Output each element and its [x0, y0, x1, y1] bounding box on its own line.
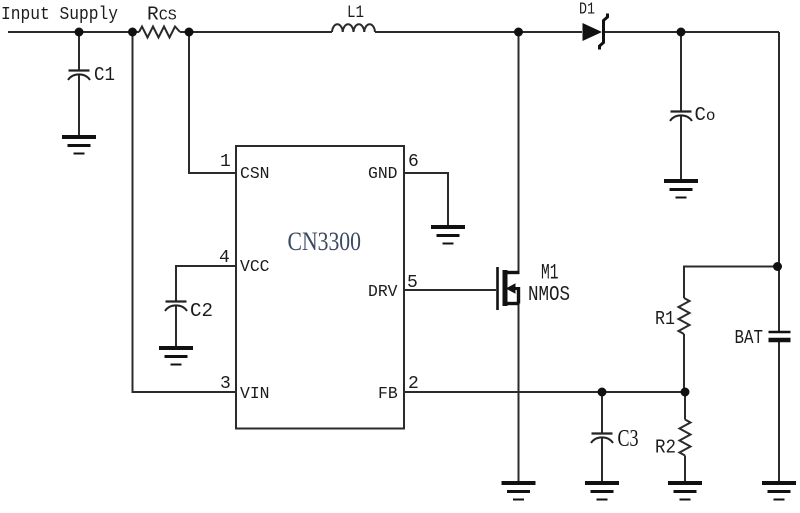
- ground (C1): [62, 137, 96, 154]
- svg-text:BAT: BAT: [735, 327, 764, 349]
- wire top rail between Rcs and L1: [180, 31, 332, 33]
- node Co junction: [677, 28, 686, 37]
- svg-text:NMOS: NMOS: [528, 284, 570, 307]
- svg-text:VCC: VCC: [240, 257, 270, 276]
- svg-text:RCS: RCS: [147, 4, 177, 26]
- node VIN branch junction: [128, 28, 137, 37]
- battery BAT: [769, 332, 791, 340]
- diode D1: [583, 14, 608, 50]
- node M1 drain junction: [514, 28, 523, 37]
- wire C1 branch lower: [78, 75, 80, 137]
- wire VCC to C2: [176, 266, 236, 301]
- wire VIN vertical: [133, 32, 237, 392]
- svg-text:2: 2: [408, 374, 419, 394]
- resistor RCS: [139, 27, 180, 38]
- node R1/BAT junction: [773, 262, 782, 271]
- wire top rail left segment: [8, 31, 139, 33]
- node input/C1 junction: [75, 28, 84, 37]
- svg-text:M1: M1: [541, 261, 559, 286]
- node C3/FB junction: [598, 388, 607, 397]
- svg-text:D1: D1: [579, 0, 595, 19]
- ground (BAT): [762, 483, 796, 500]
- wire top rail between D1 and right edge: [604, 31, 779, 33]
- capacitor C2: [165, 302, 187, 312]
- ground (GND pin 6): [431, 227, 465, 244]
- svg-text:R2: R2: [655, 437, 676, 459]
- resistor R2: [680, 420, 691, 456]
- svg-text:VIN: VIN: [240, 384, 270, 403]
- inductor L1: [332, 24, 375, 32]
- wire C2 to ground: [175, 306, 177, 348]
- resistor R1: [679, 298, 690, 334]
- svg-text:GND: GND: [368, 164, 398, 183]
- wire Co branch lower: [680, 116, 682, 181]
- ground (Co): [664, 181, 698, 198]
- wire R2 bottom: [684, 456, 686, 484]
- wire GND pin to ground: [404, 173, 448, 227]
- svg-text:Input Supply: Input Supply: [1, 5, 118, 25]
- capacitor C1: [68, 71, 90, 81]
- svg-text:CSN: CSN: [240, 164, 270, 183]
- svg-text:C2: C2: [190, 300, 213, 322]
- capacitor C3: [591, 434, 613, 444]
- wire top rail between L1 and D1: [375, 31, 582, 33]
- svg-text:1: 1: [220, 152, 231, 172]
- wire right rail to BAT: [778, 32, 780, 331]
- wire Co branch upper: [680, 32, 682, 111]
- svg-text:R1: R1: [655, 308, 675, 330]
- svg-text:FB: FB: [378, 384, 398, 403]
- IC U1 CN3300 box: [236, 146, 404, 429]
- svg-text:4: 4: [219, 248, 230, 268]
- svg-text:Co: Co: [695, 104, 716, 126]
- wire C3 upper: [601, 392, 603, 433]
- wire CSN vertical: [189, 32, 236, 173]
- svg-text:L1: L1: [347, 3, 364, 23]
- ground (M1 source): [502, 483, 536, 500]
- svg-text:3: 3: [220, 374, 231, 394]
- wire R1 bottom: [683, 334, 685, 392]
- svg-text:C1: C1: [94, 64, 115, 86]
- capacitor Co: [670, 112, 692, 122]
- wire BAT to ground: [778, 342, 780, 483]
- node CSN branch junction: [185, 28, 194, 37]
- wire C1 branch upper: [78, 32, 80, 70]
- node R1/R2/FB junction: [681, 388, 690, 397]
- svg-text:CN3300: CN3300: [288, 226, 362, 256]
- svg-text:DRV: DRV: [368, 282, 398, 301]
- wire R2 top: [684, 392, 686, 420]
- wire M1 source to ground: [518, 304, 520, 483]
- wire R1 top net: [684, 267, 779, 299]
- ground (R2): [668, 483, 702, 500]
- svg-text:C3: C3: [618, 426, 639, 452]
- wire M1 drain: [518, 32, 520, 272]
- svg-text:6: 6: [408, 152, 419, 172]
- transistor M1 NMOS: [498, 267, 520, 310]
- svg-text:5: 5: [407, 273, 418, 293]
- wire C3 lower: [601, 438, 603, 483]
- wire FB net: [404, 391, 685, 393]
- ground (C2): [159, 348, 193, 365]
- ground (C3): [585, 483, 619, 500]
- wire DRV pin to M1 gate: [404, 289, 496, 291]
